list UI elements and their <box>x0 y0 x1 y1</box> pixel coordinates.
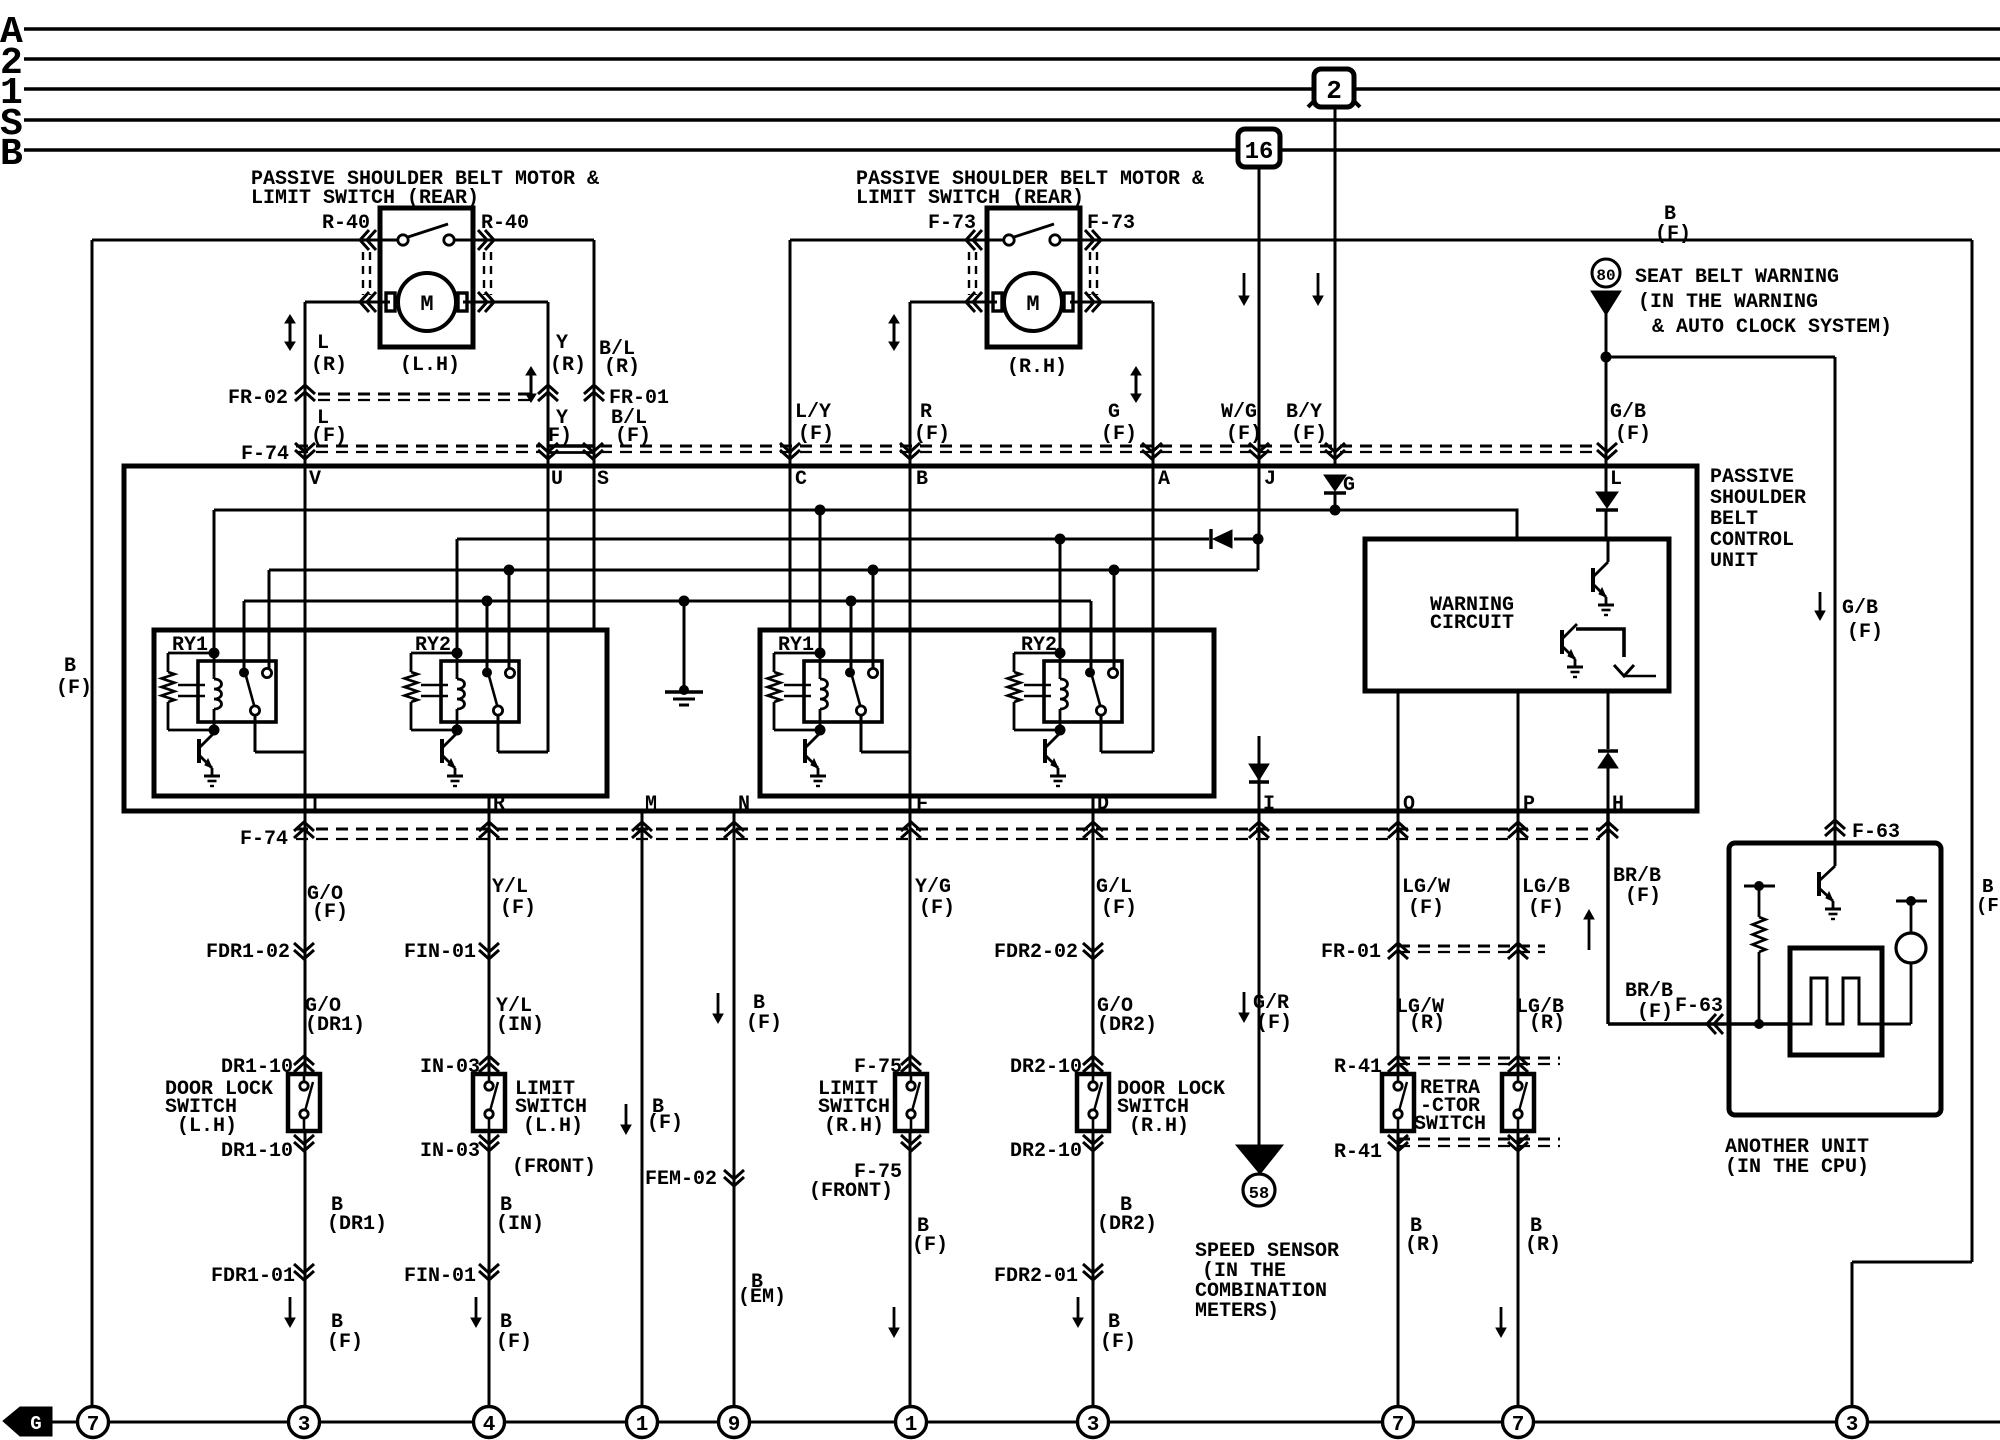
svg-text:(F): (F) <box>496 1331 532 1354</box>
relay LH RY2 coil <box>456 653 459 679</box>
svg-text:(IN): (IN) <box>496 1213 544 1236</box>
svg-text:(FRONT): (FRONT) <box>809 1180 893 1203</box>
svg-text:(F): (F) <box>1256 1012 1292 1035</box>
connector IN-03 lower <box>479 1135 499 1151</box>
svg-text:58: 58 <box>1249 1185 1269 1204</box>
svg-text:(F): (F) <box>56 677 92 700</box>
relay RH RY1 switch moving contact <box>856 706 865 715</box>
node J junction <box>1253 534 1264 545</box>
wire Y/U column <box>547 302 550 752</box>
svg-text:S: S <box>597 468 609 491</box>
wire motor row right <box>910 301 1153 304</box>
direction arrow B/Y wire <box>1317 273 1320 297</box>
connector FR-01 lower dashes <box>1398 945 1545 948</box>
row 4 leg RH RY2 common <box>1090 601 1093 668</box>
svg-text:80: 80 <box>1596 267 1615 285</box>
svg-text:(R): (R) <box>550 354 586 377</box>
pulse generator box <box>1790 948 1882 1055</box>
relay RH RY2 switch common contact <box>1085 668 1095 678</box>
pin D stub <box>1092 796 1095 811</box>
svg-text:(R.H): (R.H) <box>1129 1115 1189 1138</box>
relay LH RY1 coil node <box>209 648 220 659</box>
row 3 leg LH RY2 fixed <box>508 570 511 669</box>
circuit reference 80 seat belt warning <box>1592 259 1620 287</box>
relay RH RY2 driver transistor <box>1043 739 1047 763</box>
wire W/G from connector 16 <box>1258 164 1261 539</box>
svg-text:(F): (F) <box>1226 423 1262 446</box>
direction arrow LH left <box>289 322 292 343</box>
svg-text:(F): (F) <box>1655 223 1691 246</box>
wire B/Y from connector 2 <box>1334 103 1337 466</box>
svg-text:G/L: G/L <box>1096 876 1132 899</box>
svg-text:C: C <box>795 468 807 491</box>
row 4 junction LH RY2 common <box>482 596 493 607</box>
relay RH RY2 switch fixed contact <box>1108 668 1117 677</box>
svg-text:F: F <box>916 793 928 816</box>
svg-text:M: M <box>420 292 433 317</box>
door lock switch RH <box>1077 1074 1109 1131</box>
relay RH RY2 coil node <box>1055 648 1066 659</box>
wire L pin to diode <box>1605 466 1608 492</box>
wire R column lower <box>488 811 491 1405</box>
svg-text:(IN THE WARNING: (IN THE WARNING <box>1638 291 1818 314</box>
svg-text:J: J <box>1264 468 1276 491</box>
svg-text:(L.H): (L.H) <box>400 354 460 377</box>
wire M column <box>641 811 644 1405</box>
svg-text:(R): (R) <box>1525 1234 1561 1257</box>
svg-text:M: M <box>645 793 657 816</box>
ground circle 7 leftmost <box>78 1407 109 1438</box>
row 1 junction RH RY1 <box>815 505 826 516</box>
svg-text:(F): (F) <box>1625 885 1661 908</box>
ground circle 3 col D <box>1078 1407 1109 1438</box>
relay RH RY1 driver transistor <box>803 739 807 763</box>
junction G/B branch <box>1601 352 1612 363</box>
svg-text:7: 7 <box>1512 1414 1525 1437</box>
svg-text:(L.H): (L.H) <box>523 1115 583 1138</box>
pulse waveform <box>1790 978 1882 1024</box>
wire J to row3 <box>1257 539 1260 570</box>
ground circle 1 col M <box>627 1407 658 1438</box>
wire BR/B vertical <box>1606 811 1609 1024</box>
svg-text:LG/W: LG/W <box>1402 876 1450 899</box>
relay LH RY1 switch moving contact <box>250 706 259 715</box>
svg-text:1: 1 <box>905 1414 918 1437</box>
ground circle 1 col F <box>896 1407 927 1438</box>
svg-text:Q: Q <box>1403 793 1415 816</box>
wire U line into relay box <box>498 751 548 754</box>
svg-text:(F): (F) <box>1528 897 1564 920</box>
bus line 2 <box>24 57 2000 61</box>
svg-text:METERS): METERS) <box>1195 1300 1279 1323</box>
row 2 leg RH RY2 <box>1059 539 1062 653</box>
svg-text:(F): (F) <box>1976 895 2000 917</box>
svg-text:F-73: F-73 <box>928 212 976 235</box>
relay LH RY1 coil bottom node <box>209 725 220 736</box>
svg-text:(DR2): (DR2) <box>1097 1213 1157 1236</box>
connector box 2 on bus 1 <box>1314 69 1354 107</box>
relay box LH <box>154 630 607 796</box>
svg-text:Y/L: Y/L <box>492 876 528 899</box>
ground circle 7 col P <box>1503 1407 1534 1438</box>
svg-text:R-41: R-41 <box>1334 1056 1382 1079</box>
relay LH RY2 switch blade <box>489 676 497 705</box>
relay LH RY1 switch fixed contact <box>262 668 271 677</box>
retractor switch Q <box>1382 1074 1414 1131</box>
svg-text:W/G: W/G <box>1221 401 1257 424</box>
limit switch contacts RH <box>987 239 1003 242</box>
row 4 wire <box>244 600 1091 603</box>
relay RH RY2 switch moving contact <box>1096 706 1105 715</box>
bus line S <box>24 118 2000 122</box>
relay LH RY2 coil node <box>452 648 463 659</box>
T2 collector path with down arrow <box>1576 629 1624 657</box>
diode H <box>1598 749 1618 752</box>
wire B/L / S column <box>593 240 596 631</box>
diode at J node <box>1209 529 1212 549</box>
svg-text:(F): (F) <box>312 901 348 924</box>
wire G/B branch horizontal <box>1606 356 1835 359</box>
svg-text:DR2-10: DR2-10 <box>1010 1140 1082 1163</box>
relay RH RY2 coil bottom node <box>1055 725 1066 736</box>
wire B(F) right jog to ground circle <box>1852 1261 1972 1264</box>
wire B(F) left vertical <box>91 240 94 1407</box>
svg-text:FDR1-01: FDR1-01 <box>211 1265 295 1288</box>
direction arrow G/B <box>1819 592 1822 612</box>
relay LH RY2 switch common contact <box>482 668 492 678</box>
svg-text:9: 9 <box>728 1414 741 1437</box>
svg-text:FDR2-02: FDR2-02 <box>994 941 1078 964</box>
ground circle 3 right <box>1837 1407 1868 1438</box>
svg-text:(IN): (IN) <box>496 1014 544 1037</box>
row 4 leg LH RY1 common <box>243 601 246 668</box>
connector FR-02 dashes <box>318 393 533 396</box>
limit switch RH front <box>895 1074 927 1131</box>
row 1 leg LH RY1 <box>213 510 216 653</box>
svg-text:(F): (F) <box>500 897 536 920</box>
relay RH RY2 inner box <box>1044 661 1122 722</box>
row 4 leg RH RY1 common <box>850 601 853 668</box>
svg-text:(IN THE CPU): (IN THE CPU) <box>1725 1156 1869 1179</box>
wire P from warning circuit <box>1517 691 1520 1405</box>
direction arrow col P <box>1500 1307 1503 1329</box>
relay RH RY1 inner box <box>804 661 882 722</box>
svg-text:PASSIVE: PASSIVE <box>1710 466 1794 489</box>
svg-text:FIN-01: FIN-01 <box>404 941 476 964</box>
relay RH RY2 coil <box>1059 653 1062 679</box>
relay RH RY1 switch common contact <box>845 668 855 678</box>
node row1 / diode G junction <box>1330 505 1341 516</box>
relay LH RY1 driver transistor <box>197 739 201 763</box>
relay box RH <box>760 630 1214 796</box>
connector R-41 upper chevron Q <box>1388 1056 1408 1072</box>
row 3 leg RH RY1 fixed <box>872 570 875 669</box>
svg-text:(R.H): (R.H) <box>1007 356 1067 379</box>
connector FR-02 chevron Y wire <box>538 385 558 401</box>
connector box 16 on bus B <box>1238 129 1280 167</box>
svg-text:SEAT BELT WARNING: SEAT BELT WARNING <box>1635 266 1839 289</box>
svg-text:G: G <box>1108 401 1120 424</box>
connector F-74 upper chevrons <box>295 443 315 459</box>
diode L <box>1596 492 1618 508</box>
wire D column lower <box>1092 811 1095 1405</box>
relay RH RY1 coil <box>819 653 822 679</box>
relay LH RY2 driver transistor <box>440 739 444 763</box>
svg-text:(R): (R) <box>604 356 640 379</box>
connector F-73 chevrons switch row <box>966 230 982 250</box>
relay LH RY2 switch fixed contact <box>505 668 514 677</box>
connector F-74 lower chevrons <box>294 822 314 838</box>
connector FR-01 chevron P <box>1508 943 1528 959</box>
relay LH RY1 switch common contact <box>239 668 249 678</box>
row 3 leg RH RY2 fixed <box>1113 570 1116 669</box>
svg-text:(L.H): (L.H) <box>177 1115 237 1138</box>
direction arrow BR/B <box>1588 918 1591 950</box>
direction arrow RH left <box>893 322 896 343</box>
svg-text:DR1-10: DR1-10 <box>221 1056 293 1079</box>
lamp in another unit <box>1896 900 1927 903</box>
connector F-75 lower <box>901 1135 921 1151</box>
motor M LH <box>380 301 390 304</box>
transistor T2 warning <box>1560 630 1564 654</box>
row 3 junction RH RY1 fixed <box>868 565 879 576</box>
relay LH RY1 inner box <box>198 661 276 722</box>
svg-text:L: L <box>317 332 329 355</box>
svg-text:T: T <box>309 793 321 816</box>
direction arrow col F <box>893 1307 896 1329</box>
wire LH RY2 moving down to R <box>497 715 500 752</box>
svg-text:(R): (R) <box>1529 1012 1565 1035</box>
svg-text:R-40: R-40 <box>322 212 370 235</box>
row 1 leg RH RY1 <box>819 510 822 653</box>
connector F-63 lower chevron <box>1707 1014 1723 1034</box>
relay RH RY1 coil bottom node <box>815 725 826 736</box>
relay LH RY1 switch blade <box>246 676 254 705</box>
row 2 junction RH RY2 <box>1055 534 1066 545</box>
ground circle 4 col R <box>474 1407 505 1438</box>
relay LH RY1 coil <box>213 653 216 679</box>
svg-text:& AUTO CLOCK SYSTEM): & AUTO CLOCK SYSTEM) <box>1652 316 1892 339</box>
svg-text:L: L <box>1610 468 1622 491</box>
wire N column <box>733 811 736 1405</box>
connector FR-01 chevron B/L wire <box>584 385 604 401</box>
svg-text:7: 7 <box>1392 1414 1405 1437</box>
connector R-40 chevrons switch row <box>360 230 376 250</box>
connector F-74 lower dashes <box>296 828 1600 831</box>
svg-text:G: G <box>30 1413 41 1435</box>
svg-text:(F): (F) <box>1291 423 1327 446</box>
connector F-73 boundary dashes <box>968 252 970 295</box>
another unit box <box>1729 843 1941 1115</box>
direction arrow col I <box>1243 992 1246 1014</box>
direction arrow LH right <box>530 374 533 395</box>
svg-text:BR/B: BR/B <box>1625 980 1673 1003</box>
diode G <box>1324 475 1346 491</box>
svg-text:(R): (R) <box>311 354 347 377</box>
connector FR-01 chevron Q <box>1388 943 1408 959</box>
connector R-41 upper chevron P <box>1508 1056 1528 1072</box>
wire I column <box>1258 736 1261 1145</box>
svg-text:(F): (F) <box>1615 423 1651 446</box>
svg-text:SWITCH: SWITCH <box>1414 1113 1486 1136</box>
svg-text:(R): (R) <box>1409 1012 1445 1035</box>
connector R-40 boundary dashes <box>362 252 364 295</box>
svg-text:3: 3 <box>1846 1414 1859 1437</box>
svg-text:3: 3 <box>1087 1414 1100 1437</box>
motor unit box LH <box>380 208 473 347</box>
relay RH RY1 coil node <box>815 648 826 659</box>
internal ground <box>683 601 686 691</box>
svg-text:R-41: R-41 <box>1334 1141 1382 1164</box>
svg-text:Y: Y <box>556 332 568 355</box>
svg-text:FR-02: FR-02 <box>228 387 288 410</box>
svg-text:UNIT: UNIT <box>1710 550 1758 573</box>
bus line B <box>24 148 2000 152</box>
wire switch row left (B F) <box>92 239 594 242</box>
diode I <box>1249 764 1269 780</box>
svg-text:M: M <box>1026 292 1039 317</box>
svg-text:F-74: F-74 <box>241 443 289 466</box>
row 3 wire <box>269 569 1258 572</box>
transistor T1 warning <box>1607 539 1610 562</box>
wire switch row right <box>790 239 1972 242</box>
relay LH RY2 inner box <box>441 661 519 722</box>
svg-text:B: B <box>64 655 76 678</box>
wire L column from 80 <box>1605 313 1608 357</box>
direction arrow col N <box>717 993 720 1015</box>
svg-text:(F): (F) <box>1637 1001 1673 1024</box>
transistor T3 another unit <box>1834 843 1837 866</box>
svg-text:4: 4 <box>483 1414 496 1437</box>
circuit reference 58 speed sensor <box>1243 1174 1275 1206</box>
svg-text:LG/B: LG/B <box>1522 876 1570 899</box>
wire BR/B horizontal to another unit <box>1608 1022 1790 1025</box>
svg-text:B: B <box>0 133 23 176</box>
svg-text:H: H <box>1612 793 1624 816</box>
bus line A <box>24 27 2000 31</box>
svg-text:(F): (F) <box>919 897 955 920</box>
svg-text:CONTROL: CONTROL <box>1710 529 1794 552</box>
svg-text:(FRONT): (FRONT) <box>512 1156 596 1179</box>
svg-text:2: 2 <box>1326 76 1342 106</box>
connector F-73 chevrons motor row <box>966 292 982 312</box>
row 2 leg LH RY2 <box>456 539 459 653</box>
wire RH RY2 moving down <box>1100 715 1103 752</box>
svg-text:1: 1 <box>636 1414 649 1437</box>
svg-text:(F): (F) <box>746 1012 782 1035</box>
connector F-74 bridge solid segment <box>548 444 593 448</box>
svg-text:DR1-10: DR1-10 <box>221 1140 293 1163</box>
svg-text:L/Y: L/Y <box>795 401 831 424</box>
connector R-41 upper dashes <box>1398 1057 1560 1060</box>
connector DR2-10 lower <box>1083 1135 1103 1151</box>
ground circle 7 col Q <box>1383 1407 1414 1438</box>
limit switch contacts LH <box>380 239 397 242</box>
relay LH RY2 switch moving contact <box>493 706 502 715</box>
svg-text:7: 7 <box>87 1414 100 1437</box>
resistor in another unit <box>1744 885 1775 888</box>
row 3 junction RH RY2 fixed <box>1109 565 1120 576</box>
svg-text:(F): (F) <box>1408 897 1444 920</box>
limit switch LH front <box>473 1074 505 1131</box>
connector F-63 chevron <box>1825 820 1845 836</box>
connector FR-02 chevron L wire <box>295 385 315 401</box>
motor M RH <box>987 301 997 304</box>
svg-text:16: 16 <box>1245 139 1274 166</box>
direction arrow RH right <box>1135 374 1138 395</box>
direction arrow col R <box>475 1297 478 1319</box>
ground circle 3 col T <box>289 1407 320 1438</box>
connector R-41 lower chevron P <box>1508 1135 1528 1151</box>
door lock switch LH <box>288 1074 320 1131</box>
wire LH RY1 moving to V/T line <box>254 715 257 752</box>
svg-text:A: A <box>1158 468 1170 491</box>
wire A line into relay box <box>1101 751 1153 754</box>
warning circuit box <box>1365 539 1669 691</box>
wire C column <box>789 240 792 631</box>
svg-text:D: D <box>1097 793 1109 816</box>
svg-text:(F): (F) <box>1101 423 1137 446</box>
wire RH RY1 moving to B/F line <box>860 715 863 752</box>
svg-text:(DR1): (DR1) <box>305 1014 365 1037</box>
svg-text:P: P <box>1523 793 1535 816</box>
motor unit box RH <box>987 208 1080 347</box>
relay RH RY1 switch fixed contact <box>868 668 877 677</box>
svg-text:G: G <box>1343 474 1355 497</box>
bottom ground bus wire <box>42 1421 2000 1424</box>
wire Q from warning circuit <box>1397 691 1400 1405</box>
svg-text:G/B: G/B <box>1842 597 1878 620</box>
svg-text:FDR2-01: FDR2-01 <box>994 1265 1078 1288</box>
svg-text:B/Y: B/Y <box>1286 401 1322 424</box>
svg-text:(DR2): (DR2) <box>1097 1014 1157 1037</box>
svg-text:DR2-10: DR2-10 <box>1010 1056 1082 1079</box>
row 4 junction ground <box>679 596 690 607</box>
connector F-74 upper dashes <box>296 445 540 448</box>
wire G/B right vertical <box>1834 357 1837 843</box>
svg-text:B: B <box>916 468 928 491</box>
relay RH RY2 switch blade <box>1092 676 1100 705</box>
direction arrow col M <box>625 1104 628 1126</box>
wire R/B/F column <box>909 302 912 1405</box>
pin R stub <box>488 796 491 811</box>
svg-text:I: I <box>1263 793 1275 816</box>
wire motor row left (L) <box>305 301 548 304</box>
svg-text:FEM-02: FEM-02 <box>645 1168 717 1191</box>
row 4 junction RH RY1 common <box>846 596 857 607</box>
svg-text:R: R <box>920 401 932 424</box>
wire H from warning circuit <box>1607 691 1610 749</box>
row 2 wire <box>457 538 1209 541</box>
wire G/A column <box>1152 302 1155 752</box>
connector DR1-10 lower <box>294 1135 314 1151</box>
direction arrow W/G wire <box>1243 273 1246 297</box>
wire L/V/T column <box>304 302 307 1405</box>
relay RH RY1 parallel resistor loop <box>774 652 820 655</box>
row 1 wire <box>214 510 1517 539</box>
svg-text:(DR1): (DR1) <box>327 1213 387 1236</box>
svg-text:3: 3 <box>298 1414 311 1437</box>
connector R-40 chevrons motor row <box>360 292 376 312</box>
svg-text:U: U <box>551 468 563 491</box>
svg-text:(F): (F) <box>1100 1331 1136 1354</box>
connector R-41 lower dashes <box>1398 1138 1560 1141</box>
svg-text:FR-01: FR-01 <box>1321 941 1381 964</box>
svg-text:(EM): (EM) <box>738 1286 786 1309</box>
direction arrow col T <box>289 1297 292 1319</box>
svg-text:(F): (F) <box>798 423 834 446</box>
svg-text:SHOULDER: SHOULDER <box>1710 487 1806 510</box>
